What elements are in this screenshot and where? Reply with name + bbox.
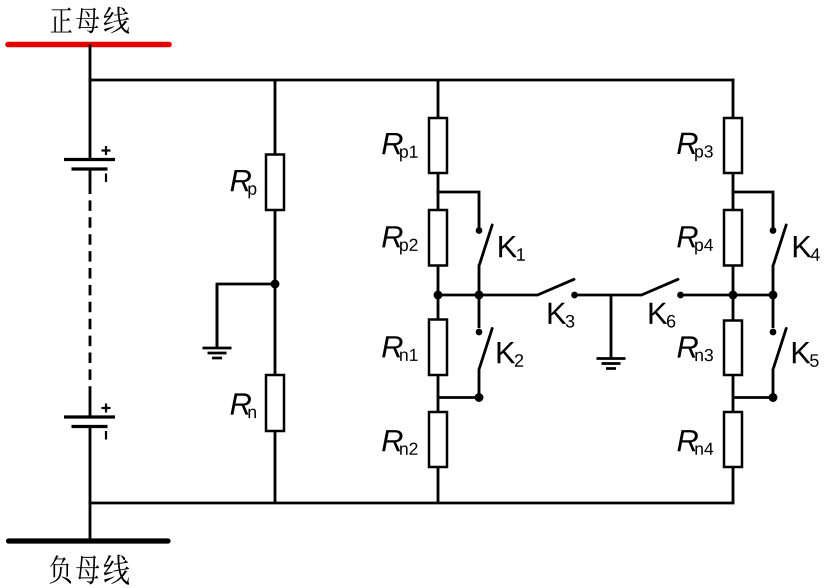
wire: Rp3 to Rp4 with branch to K4 — [732, 173, 735, 210]
wire: Rp to Rn — [274, 210, 277, 375]
wire: battery stub — [89, 171, 92, 185]
wire: Rn2 to bottom rail — [437, 467, 440, 503]
label 正母线 char 正 — [51, 7, 72, 32]
switch K1 — [476, 225, 493, 265]
wire: top rail corner down to Rp3 — [732, 79, 735, 119]
switch K3 — [538, 279, 578, 298]
resistor Rn1 — [429, 320, 447, 376]
label Rn3 — [677, 336, 712, 361]
label 负母线 char 线 — [104, 555, 130, 585]
wire: mid node down to K5 contact — [772, 295, 775, 328]
wire: top rail to Rp1 — [437, 80, 440, 119]
resistor Rn3 — [724, 321, 742, 376]
wire: Rn to bottom rail — [274, 431, 277, 503]
node: K4/K5 mid junction — [769, 291, 778, 300]
wire: to lower battery — [89, 389, 92, 416]
label K6 — [650, 303, 676, 328]
label Rp1 — [382, 133, 417, 161]
wire: K2 bottom branch to Rn1/Rn2 junction — [438, 396, 479, 399]
resistor Rp2 — [429, 210, 447, 266]
wire: K5 pivot down to branch node — [772, 369, 775, 398]
label Rp — [231, 170, 257, 198]
mid rail wire segment (chain1 to K3) — [438, 294, 538, 297]
battery cell (bottom) — [64, 404, 115, 440]
node: Rp/Rn midpoint junction — [271, 280, 280, 289]
label Rp4 — [677, 226, 713, 254]
switch K4 — [770, 225, 787, 265]
wire: Rp1 to Rp2 with branch to K1 — [437, 173, 440, 210]
resistor Rn2 — [429, 412, 447, 467]
wire: battery to negative bus — [89, 428, 92, 541]
wire: Rn3 to Rn4 — [732, 375, 735, 412]
label K5 — [793, 342, 819, 367]
label 正母线 char 母 — [76, 8, 99, 34]
resistor Rn — [266, 375, 284, 431]
resistor Rp — [266, 155, 284, 211]
wire: K1 pivot to mid rail — [478, 265, 481, 296]
switch K5 — [770, 329, 787, 369]
label 负母线 char 母 — [76, 555, 99, 584]
label K3 — [549, 303, 575, 328]
label Rn4 — [677, 430, 713, 455]
label Rp3 — [677, 133, 712, 161]
wire: junction to left ground — [217, 284, 275, 347]
node: K5 bottom junction — [769, 393, 778, 402]
battery cell (top) — [64, 146, 115, 182]
mid rail wire segment (K3 to K6) — [577, 294, 642, 297]
label K2 — [498, 342, 524, 367]
negative bus bar (负母线) — [9, 538, 169, 543]
resistor Rn4 — [724, 412, 742, 467]
wire: Rp4 to mid node — [732, 266, 735, 321]
label Rn2 — [382, 430, 417, 455]
node: K2 bottom junction — [475, 393, 484, 402]
switch K6 — [642, 279, 684, 298]
wire: mid node down to K2 contact — [478, 295, 481, 328]
resistor Rp4 — [724, 210, 742, 266]
wire: K4 pivot to mid rail — [772, 265, 775, 296]
label 负母线 char 负 — [50, 555, 72, 584]
label K1 — [499, 236, 525, 261]
dashed wire between battery cells — [89, 184, 92, 390]
label Rp2 — [382, 226, 417, 254]
wire: positive bus to battery top — [89, 45, 92, 159]
label 正母线 char 线 — [104, 7, 130, 34]
label K4 — [794, 236, 820, 261]
resistor Rp3 — [724, 118, 742, 173]
ground (left) — [216, 284, 219, 348]
wire: top rail to Rp — [274, 80, 277, 155]
label Rn — [231, 393, 256, 418]
node: chain2 mid junction — [729, 291, 738, 300]
switch K2 — [476, 329, 493, 369]
wire: K5 bottom branch to Rn3/Rn4 junction — [733, 396, 773, 399]
wire: Rn4 to bottom rail — [732, 467, 735, 503]
wire: Rn1 to Rn2 — [437, 375, 440, 412]
node: chain1 mid junction — [434, 291, 443, 300]
bottom rail wire — [90, 502, 733, 505]
resistor Rp1 — [429, 118, 447, 173]
positive bus bar (正母线) — [8, 42, 169, 48]
mid rail wire segment (K6 to chain2) — [683, 294, 773, 297]
node: K1/K2 mid junction — [475, 291, 484, 300]
top rail wire — [90, 79, 733, 82]
label Rn1 — [382, 336, 417, 361]
wire: Rp2 to mid node — [437, 266, 440, 321]
ground (center) — [610, 295, 613, 359]
wire: K2 pivot down to branch node — [478, 369, 481, 398]
